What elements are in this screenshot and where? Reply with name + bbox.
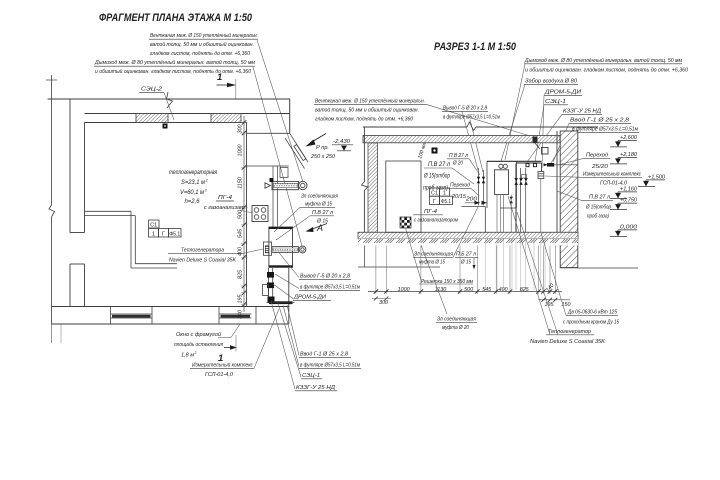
svg-text:гладком листом, поднять до отм: гладком листом, поднять до отм. +6,360 xyxy=(315,117,414,123)
label: mufta 20 bottom xyxy=(436,317,477,332)
leader: vent note section xyxy=(426,104,534,137)
svg-text:и обшитый оцинкован. гладком: и обшитый оцинкован. гладком листом, под… xyxy=(525,67,689,74)
leader: pb27 below floor xyxy=(473,258,476,270)
svg-text:Navien Deluxe S Coaxial 35K: Navien Deluxe S Coaxial 35K xyxy=(169,258,237,264)
svg-text:С1: С1 xyxy=(150,223,157,229)
label: perehod 20/15 xyxy=(448,183,471,201)
sleeve through bottom wall (plan) xyxy=(267,301,295,304)
svg-text:СЭЦ-1: СЭЦ-1 xyxy=(302,373,320,379)
leader: drom xyxy=(542,95,544,168)
label: SEC-1 (section) xyxy=(544,99,568,105)
wall: plan left pier lower xyxy=(70,264,85,307)
leader: PG-4 to stove xyxy=(240,210,252,213)
sleeve through right wall xyxy=(544,163,579,167)
svg-text:Г: Г xyxy=(433,199,436,205)
section mark 1 (top) xyxy=(217,72,237,99)
extension lines below floor xyxy=(376,246,555,295)
svg-text:400: 400 xyxy=(237,247,243,256)
svg-text:СЭЦ-1: СЭЦ-1 xyxy=(545,99,566,105)
view mark A (plan) xyxy=(306,223,328,233)
leader: pv27 top xyxy=(469,159,480,175)
leader: chimney note to lower coaxial outlet xyxy=(253,67,302,246)
label: P pr -2,430 250x250 xyxy=(310,139,353,160)
label: dv 05-0630 xyxy=(563,310,620,326)
svg-text:в футляре Ø57х3,5 L=0,51м: в футляре Ø57х3,5 L=0,51м xyxy=(443,115,500,121)
svg-text:Теплогенератор: Теплогенератор xyxy=(548,329,592,335)
window 2 in bottom wall xyxy=(219,307,256,325)
svg-text:+0,750: +0,750 xyxy=(620,198,638,204)
fitting: black square at flue xyxy=(270,178,274,182)
wall: interior partition of plan room xyxy=(85,211,178,268)
svg-text:1150: 1150 xyxy=(237,177,243,189)
label: izmeritelny (section) xyxy=(582,171,642,187)
svg-text:300: 300 xyxy=(237,125,243,134)
svg-text:ФРАГМЕНТ ПЛАНА ЭТАЖА М 1:50: ФРАГМЕНТ ПЛАНА ЭТАЖА М 1:50 xyxy=(99,12,253,24)
leader: perehod 2015 xyxy=(471,188,479,196)
label: KZZG (section) xyxy=(562,109,602,115)
leader: pv27 mid xyxy=(452,168,474,184)
svg-text:300: 300 xyxy=(379,300,388,306)
svg-text:2: 2 xyxy=(205,179,208,183)
svg-text:Вентканал меж. Ø 150 утеплённы: Вентканал меж. Ø 150 утеплённый минераль… xyxy=(315,98,425,105)
svg-text:1: 1 xyxy=(217,72,222,83)
svg-text:-2,430: -2,430 xyxy=(333,139,351,145)
svg-text:ГСЛ-01-4,0: ГСЛ-01-4,0 xyxy=(600,181,628,187)
sub dimension 300 xyxy=(372,297,391,306)
label: PB27 below floor xyxy=(455,252,478,266)
window 1 in bottom wall xyxy=(111,307,153,325)
gas meter on drop xyxy=(538,163,544,232)
svg-text:ДРОМ-5-ДИ: ДРОМ-5-ДИ xyxy=(293,295,327,301)
svg-text:Зл соединяющая: Зл соединяющая xyxy=(301,194,338,200)
leader: mufta15 to pipe xyxy=(274,207,300,232)
label: perehod 25/20 xyxy=(584,153,610,171)
leader: teplogenerator section xyxy=(508,196,558,335)
leader: vyvod G-5 labels to pipes xyxy=(273,252,299,299)
svg-text:1000: 1000 xyxy=(398,287,410,293)
svg-text:П.В 27 л: П.В 27 л xyxy=(428,161,450,168)
ceiling slab top line xyxy=(363,122,598,131)
svg-text:Ввод Г-1 Ø 25 х 2,8: Ввод Г-1 Ø 25 х 2,8 xyxy=(300,352,349,358)
arrow: supply air direction xyxy=(306,134,327,147)
label: izmeritelny komplex (plan) xyxy=(190,362,254,379)
boiler (plan) xyxy=(269,227,293,267)
svg-text:Дв 05-0630-6 кВт 125: Дв 05-0630-6 кВт 125 xyxy=(567,310,617,316)
vent box in niche corner xyxy=(280,168,288,178)
label: PV27 top (section) xyxy=(447,153,469,167)
label: vent duct note (section left) xyxy=(314,98,426,123)
gas stove PG-4 (plan) xyxy=(252,206,268,222)
dimension texts (section) xyxy=(398,283,556,294)
wall: plan bottom outer face xyxy=(52,323,289,325)
svg-text:Зл соединяющая: Зл соединяющая xyxy=(437,317,476,323)
leader: vyvod g5 section xyxy=(462,111,483,172)
svg-text:Измерительный комплекс: Измерительный комплекс xyxy=(192,362,253,369)
wall hatch pier 1 xyxy=(136,114,168,123)
svg-text:340: 340 xyxy=(237,310,243,319)
leader: perehod 2520 xyxy=(558,158,584,165)
svg-text:545: 545 xyxy=(482,287,492,293)
left riser pipes with valves xyxy=(477,168,485,205)
gas pipes below boiler (plan) xyxy=(269,268,273,301)
svg-text:Г: Г xyxy=(162,231,165,237)
label: air intake xyxy=(524,79,578,85)
svg-text:Измерительный комплекс: Измерительный комплекс xyxy=(583,171,641,178)
wall: plan top inner face xyxy=(85,122,247,124)
fitting: union 2 xyxy=(267,283,274,289)
svg-text:Вентканал меж. Ø 150 утеплённы: Вентканал меж. Ø 150 утеплённый минераль… xyxy=(150,32,258,39)
dimension texts vertical chain xyxy=(237,125,243,320)
leader: izmeritelny to pipe xyxy=(254,309,279,368)
svg-text:Р пр.: Р пр. xyxy=(316,145,329,151)
svg-text:ДРОМ-5-ДИ: ДРОМ-5-ДИ xyxy=(544,90,582,96)
svg-text:П.В 27 л: П.В 27 л xyxy=(449,153,469,159)
svg-text:проб газа): проб газа) xyxy=(587,214,609,220)
svg-text:ПГ-4: ПГ-4 xyxy=(218,195,232,201)
svg-text:Переход: Переход xyxy=(586,153,609,159)
svg-text:1,8 м: 1,8 м xyxy=(181,353,194,359)
svg-text:теплогенераторная: теплогенераторная xyxy=(169,169,218,176)
svg-text:ватой толщ. 50 мм и обшитый: ватой толщ. 50 мм и обшитый оцинкован. xyxy=(315,107,419,114)
svg-text:СЭЦ-2: СЭЦ-2 xyxy=(141,87,163,93)
svg-text:Navien Deluxe S Coaxial 35K: Navien Deluxe S Coaxial 35K xyxy=(530,339,606,345)
floor slab with hatch xyxy=(358,232,578,245)
label: PV27 right xyxy=(581,195,613,220)
svg-text:Дымоход меж. Ø 80 утеплённый: Дымоход меж. Ø 80 утеплённый минеральн. … xyxy=(94,59,255,66)
svg-text:h=2,6: h=2,6 xyxy=(185,198,201,205)
svg-text:РАЗРЕЗ 1-1 М 1:50: РАЗРЕЗ 1-1 М 1:50 xyxy=(434,41,517,53)
pipe: boiler drop right xyxy=(510,195,512,233)
svg-text:825: 825 xyxy=(520,287,530,293)
label: chimney note (section) xyxy=(524,57,689,74)
svg-text:1130: 1130 xyxy=(435,287,447,293)
wall: plan bottom inner face xyxy=(52,306,289,308)
marker: C1 boxes (section) xyxy=(430,188,453,205)
boiler frame (section) xyxy=(487,161,542,208)
leader: window label xyxy=(231,324,240,338)
svg-text:100 мл: 100 мл xyxy=(417,142,428,160)
label: vyvod G-5 (section) xyxy=(442,106,500,121)
roof penetration box xyxy=(533,137,549,155)
svg-text:с проходным краном Ду 15: с проходным краном Ду 15 xyxy=(563,320,620,326)
svg-text:А: А xyxy=(316,223,323,233)
boiler body (section) xyxy=(495,170,509,195)
leader: dv0630 xyxy=(541,233,566,315)
leader: vvod g1 section xyxy=(549,123,571,166)
coaxial flue outlet lower (plan) xyxy=(272,246,306,253)
svg-text:Дымоход меж. Ø 80 утеплённый: Дымоход меж. Ø 80 утеплённый минеральн. … xyxy=(524,57,682,64)
svg-text:Вывод Г-5 Ø 20 х 2,8: Вывод Г-5 Ø 20 х 2,8 xyxy=(443,106,488,112)
valve below boiler xyxy=(510,197,513,203)
wall: plan left outer face / axis xyxy=(46,75,61,343)
levels right side xyxy=(610,135,638,147)
wall: plan left pier upper xyxy=(70,99,85,233)
svg-text:25/20: 25/20 xyxy=(591,164,609,170)
leader: grille label xyxy=(406,228,422,280)
svg-text:Теплогенератора: Теплогенератора xyxy=(181,248,225,254)
svg-text:П.В 27 л: П.В 27 л xyxy=(312,210,334,216)
platform step line xyxy=(462,207,486,233)
wall: plan right face xyxy=(288,268,290,324)
svg-text:1: 1 xyxy=(152,231,155,237)
svg-text:муфта Ø 20: муфта Ø 20 xyxy=(442,325,470,331)
leader: vvod G-1 labels to sleeve xyxy=(271,301,301,389)
wall hatch pier 2 xyxy=(211,114,241,123)
label: PB 27l d15 (plan) xyxy=(310,210,334,225)
svg-text:Забор воздуха Ø 80: Забор воздуха Ø 80 xyxy=(525,79,578,85)
leader: mufta15 section xyxy=(453,207,478,257)
svg-text:0,000: 0,000 xyxy=(620,224,638,230)
coaxial flue outlet upper (plan) xyxy=(272,181,307,189)
svg-text:250 х 250: 250 х 250 xyxy=(310,154,336,160)
label: vvod G-1 (section) xyxy=(569,118,639,133)
svg-text:Вывод Г-5 Ø 20 х 2,8: Вывод Г-5 Ø 20 х 2,8 xyxy=(300,274,351,280)
right riser pipes with valves xyxy=(514,164,527,233)
svg-text:Ф5.1: Ф5.1 xyxy=(169,231,180,237)
leader: sec1 xyxy=(535,105,544,162)
label: vyvod G-5 (plan) xyxy=(293,274,360,301)
device: black square on wall xyxy=(163,124,168,129)
valve: gas cock box xyxy=(263,285,269,296)
svg-text:2: 2 xyxy=(194,351,197,355)
device on ceiling (black square) xyxy=(432,148,438,154)
svg-text:195: 195 xyxy=(237,294,243,304)
leader: vent note to coaxial outlet xyxy=(257,40,303,182)
svg-text:+2,180: +2,180 xyxy=(620,152,638,158)
door in section xyxy=(386,161,421,232)
svg-text:КЗЗГ-У 25 НД: КЗЗГ-У 25 НД xyxy=(296,385,335,391)
svg-text:500: 500 xyxy=(237,210,243,219)
svg-text:КЗЗГ-У 25 НД: КЗЗГ-У 25 НД xyxy=(563,109,601,115)
svg-text:площадь остекления: площадь остекления xyxy=(174,342,223,348)
wall: niche bottom line xyxy=(247,165,289,167)
svg-text:1000: 1000 xyxy=(237,145,243,157)
svg-text:545: 545 xyxy=(237,228,243,238)
label: chimney note (2 lines) xyxy=(94,59,255,75)
svg-text:S=23,1 м: S=23,1 м xyxy=(181,179,206,186)
leader: mufta20 xyxy=(421,245,447,314)
dimension chain vertical (plan) xyxy=(241,116,248,312)
label: window with transom xyxy=(174,331,223,359)
label: teplogenerator (plan) xyxy=(168,248,263,264)
label: SEC-2 xyxy=(139,87,164,93)
break symbol on top wall xyxy=(167,92,173,108)
svg-text:+1,500: +1,500 xyxy=(648,174,666,180)
svg-text:+2,600: +2,600 xyxy=(620,135,638,141)
svg-text:в футляре Ø57х3,5 L=0,51м: в футляре Ø57х3,5 L=0,51м xyxy=(300,285,360,291)
svg-text:с газоанализатором: с газоанализатором xyxy=(414,218,458,224)
wall: plan room right inner face xyxy=(246,123,248,307)
wall: niche top line xyxy=(247,132,290,134)
svg-text:ПГ-4: ПГ-4 xyxy=(424,209,437,215)
ceiling hatched band xyxy=(363,136,560,143)
label: reshetka grille xyxy=(419,279,473,285)
label: DROM-5-DI (section) xyxy=(544,90,582,96)
dimension line horizontal (section) xyxy=(368,289,562,293)
svg-text:муфта Ø 15: муфта Ø 15 xyxy=(419,260,446,266)
svg-text:и обшитый оцинкован. гладком л: и обшитый оцинкован. гладком листом, под… xyxy=(95,68,252,75)
label: soed mufta d15 (plan) xyxy=(300,194,338,208)
section mark 1 (bottom) xyxy=(218,335,237,364)
leader: chimney note xyxy=(505,64,525,160)
leader: pb27 to pipe xyxy=(276,216,310,240)
svg-text:Ø 15: Ø 15 xyxy=(460,260,471,266)
svg-text:500: 500 xyxy=(464,287,473,293)
svg-text:П.В 27 л: П.В 27 л xyxy=(589,195,611,201)
pipe continuation lines to dim xyxy=(485,239,545,291)
wall: section left xyxy=(362,127,378,267)
duct risers in plan xyxy=(273,166,278,227)
wall: plan top line 2 xyxy=(85,113,291,115)
boiler left connection box xyxy=(263,242,271,255)
svg-text:гладком листом, поднять до отм: гладком листом, поднять до отм. +6,360 xyxy=(150,51,251,57)
svg-text:в футляре Ø57х3,5 L=0,51м: в футляре Ø57х3,5 L=0,51м xyxy=(300,363,360,369)
leader: izmeritelny section xyxy=(545,176,582,177)
svg-text:ГСЛ-01-4,0: ГСЛ-01-4,0 xyxy=(205,372,234,378)
diagonal duct to exterior xyxy=(285,133,308,168)
gas detector checker box xyxy=(400,217,411,228)
svg-text:400: 400 xyxy=(499,287,508,293)
leader: kzzg xyxy=(527,114,562,162)
svg-text:V=60,1 м: V=60,1 м xyxy=(180,189,205,196)
svg-text:Зл соединяющая: Зл соединяющая xyxy=(414,252,453,258)
svg-text:Окно с фрамугой: Окно с фрамугой xyxy=(176,331,222,338)
svg-text:Ø 20: Ø 20 xyxy=(452,161,463,167)
valve: dark blob xyxy=(268,297,275,304)
sub dimension 195 150 xyxy=(538,298,571,308)
ground line right xyxy=(578,267,638,269)
wall: section right hatched xyxy=(557,131,578,268)
svg-text:825: 825 xyxy=(237,269,243,279)
wall: plan right outer corner xyxy=(289,99,291,133)
label: vent duct note (3 lines) xyxy=(149,32,258,57)
svg-text:Ф5.1: Ф5.1 xyxy=(441,199,451,205)
label: vvod G-1 (plan) xyxy=(295,352,361,392)
flow symbol triangle xyxy=(265,183,270,188)
boiler pipes down xyxy=(497,195,504,233)
svg-text:ватой толщ. 50 мм и обшитый: ватой толщ. 50 мм и обшитый оцинкован. xyxy=(150,41,254,48)
svg-text:П.Б 27 л: П.Б 27 л xyxy=(456,252,477,258)
label: teplogenerator (section) xyxy=(530,329,606,345)
label: PV27 mid (section) xyxy=(423,161,452,192)
label: PG-4 gas stove xyxy=(204,195,246,211)
svg-text:Ввод Г-1 Ø 25 х 2,8: Ввод Г-1 Ø 25 х 2,8 xyxy=(570,118,630,124)
svg-text:+1,160: +1,160 xyxy=(620,186,638,192)
leader: pv27 right xyxy=(557,191,581,200)
leader: air intake xyxy=(501,84,525,161)
svg-text:3: 3 xyxy=(205,189,207,193)
marker: C1 / 1 G F5.1 (plan) xyxy=(149,220,182,237)
svg-text:Ø 15(отбор: Ø 15(отбор xyxy=(585,205,611,211)
wall: plan top outer face xyxy=(48,98,291,100)
svg-text:муфта Ø 15: муфта Ø 15 xyxy=(305,202,333,208)
label: room name and data xyxy=(169,169,218,205)
gas pipe under ceiling xyxy=(516,163,541,167)
svg-text:195: 195 xyxy=(545,302,555,308)
svg-text:Ø 15(отбор: Ø 15(отбор xyxy=(423,173,450,180)
leader: SEC-2 to wall device xyxy=(164,93,174,121)
fitting: union 1 xyxy=(267,272,274,278)
svg-text:Переход: Переход xyxy=(450,183,471,189)
dimension 200 xyxy=(465,197,487,205)
boiler flue connections xyxy=(499,164,508,168)
label: PG-4 (section) xyxy=(413,209,458,224)
svg-text:20/15: 20/15 xyxy=(451,194,467,200)
label: soed mufta 15 below floor xyxy=(413,252,453,266)
ground line left xyxy=(358,266,440,268)
